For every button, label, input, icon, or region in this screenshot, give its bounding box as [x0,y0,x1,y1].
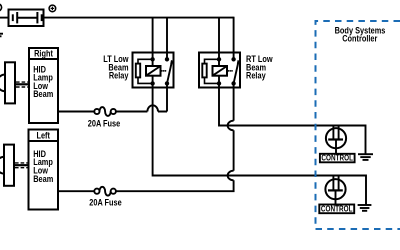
svg-text:Relay: Relay [109,71,129,81]
battery positive terminal symbol [49,5,56,12]
battery cell tall plate right [36,12,38,23]
wire LT switch pin lower stub [166,83,168,87]
svg-text:20A Fuse: 20A Fuse [89,198,122,208]
battery negative terminal circle [0,4,2,11]
node LT pin 30 [165,57,169,61]
wire bus drop to LT relay switch pin [166,18,168,53]
wire RT switch output to lower fuse [116,180,234,191]
wire bus drop to RT relay switch pin [233,17,235,53]
battery B1 box [9,10,44,27]
node LT pin 86 [150,57,154,61]
wire RT resistor top link [205,59,220,63]
battery cell short plate right [41,14,43,21]
divider Right label compartment [29,58,58,60]
link dots RT coil to armature [228,70,233,72]
connector left lamp [15,163,29,168]
wire RT resistor bottom link [205,77,220,83]
node RT pin 86 [217,57,221,61]
switch armature RT [234,60,240,83]
ground lower (controller) [358,205,372,211]
connector right lamp [16,82,29,87]
battery cell tall plate left [16,12,18,23]
node LT pin 87 [165,81,169,85]
ground below battery (clipped at edge) [0,34,3,37]
fuse F1 20A (upper) [94,107,116,116]
wire LT switch pin upper stub [166,53,168,60]
fuse F2 20A (lower) [94,187,116,196]
wire top supply bus [44,17,234,19]
node RT pin 85 [217,81,221,85]
driver U1 upper (low-side FET symbol) [326,126,346,154]
wire RT switch output down [233,88,235,121]
wire RT coil output down and right to controller [219,88,366,155]
battery center link [17,17,37,19]
relay K1 (LT) box [133,53,174,88]
battery cell short plate left [12,14,14,21]
resistor RT suppression [202,64,206,78]
coil LT relay [146,66,161,76]
wire LT resistor bottom link [138,77,153,83]
lamp left headlamp bulb [0,157,13,174]
wire RT switch output continues [233,130,235,170]
ground upper (controller) [358,154,373,160]
wire LT resistor top link [138,59,153,63]
node RT pin 30 [231,57,235,61]
lamp right headlamp bulb [0,75,14,92]
wire lower control line inside controller [316,176,367,205]
wire fuse to Left lamp box [58,190,94,192]
relay K2 (RT) box [199,53,240,88]
link dots LT coil to armature [161,70,166,72]
svg-text:CONTROL: CONTROL [321,153,353,163]
wire fuse to Right lamp box [58,111,94,113]
svg-text:CONTROL: CONTROL [321,204,353,214]
CONTROL box upper [320,153,355,163]
lamp right headlamp body [5,62,15,103]
svg-text:Left: Left [36,131,50,141]
wire bus drop to LT relay coil pin [152,18,154,53]
CONTROL box lower [319,204,354,214]
svg-text:Beam: Beam [33,89,53,99]
controller dashed border [316,21,400,229]
lamp left headlamp body [4,145,14,186]
node LT pin 85 [150,81,154,85]
HID lamp Left box [29,130,59,210]
wire LT switch output down [166,88,168,112]
wire LT coil output down [153,88,316,176]
wire RT switch pin upper stub [233,53,235,60]
coil RT relay [213,66,228,76]
wire RT switch pin lower stub [233,83,235,87]
wire LT coil pin through relay [152,53,154,88]
svg-text:Relay: Relay [246,71,266,81]
hop RT switch wire over upper control wire [228,121,234,131]
wire LT switch output to fuse (with hop over coil wire) [116,105,167,111]
wire battery negative lead [0,17,9,19]
svg-text:Controller: Controller [342,34,378,44]
divider Left label compartment [29,140,59,142]
svg-text:Beam: Beam [33,174,53,184]
hop RT switch wire over lower control wire [228,171,234,181]
resistor LT suppression [136,64,140,78]
wire bus drop to RT relay coil pin [218,18,220,53]
HID lamp Right box [29,48,58,123]
wire RT coil pin through relay [218,53,220,88]
switch armature LT [167,60,173,83]
node RT pin 87 [231,81,235,85]
svg-text:Right: Right [34,49,53,59]
driver U2 lower (low-side FET symbol) [325,176,345,205]
svg-text:20A Fuse: 20A Fuse [88,119,121,129]
